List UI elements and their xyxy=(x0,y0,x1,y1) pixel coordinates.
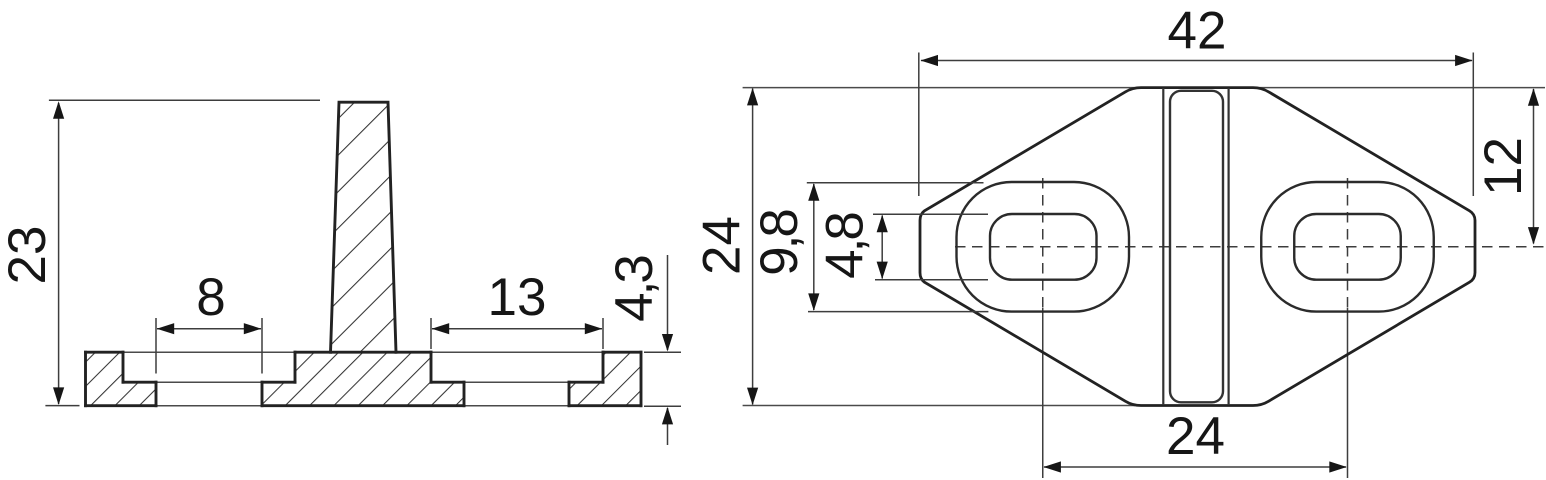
right hole counterbore outline xyxy=(1261,182,1434,312)
dimension 4,3 xyxy=(644,255,681,445)
hatched left block of base section xyxy=(86,352,157,406)
dimension 8 xyxy=(156,318,262,374)
through slot walls xyxy=(155,382,158,406)
svg-text:42: 42 xyxy=(1168,2,1227,61)
counterbore floors xyxy=(123,381,156,384)
svg-text:8: 8 xyxy=(196,268,225,327)
svg-text:4,8: 4,8 xyxy=(816,213,875,279)
svg-text:4,3: 4,3 xyxy=(605,256,664,322)
thin edge extension lines (top and bottom edges extended) xyxy=(743,88,1545,406)
svg-text:24: 24 xyxy=(693,216,752,275)
svg-text:23: 23 xyxy=(0,226,57,285)
plate outline (hex with flats) xyxy=(920,88,1475,406)
dimension 9,8 xyxy=(807,183,989,312)
top surface segments xyxy=(86,351,124,354)
right hole slot xyxy=(1294,214,1401,280)
hatched right block of base section xyxy=(569,352,641,406)
post footprint vertical lines xyxy=(1163,88,1228,405)
hatched post (tapered) xyxy=(331,102,397,352)
dimension 42 xyxy=(919,53,1474,197)
base section thick outline xyxy=(86,102,642,406)
post outline xyxy=(331,102,397,352)
counterbore walls xyxy=(122,352,125,382)
svg-text:24: 24 xyxy=(1166,407,1225,466)
svg-text:9,8: 9,8 xyxy=(750,210,809,276)
bottom surface segments xyxy=(86,404,157,407)
svg-text:13: 13 xyxy=(488,268,547,327)
dimension 23 xyxy=(45,100,320,405)
dimension 24 left xyxy=(752,89,754,405)
center lines (dashed) xyxy=(955,178,1545,478)
left hole slot xyxy=(990,214,1097,280)
dimension 4,8 xyxy=(873,214,988,280)
hatched center block of base section xyxy=(262,352,464,406)
thin background edges (seen through slots) xyxy=(123,352,603,406)
svg-text:12: 12 xyxy=(1474,137,1533,196)
outer ends xyxy=(84,352,87,406)
left hole counterbore outline xyxy=(957,182,1130,312)
dimension 12 xyxy=(1533,89,1535,244)
dimension 24 bottom xyxy=(1044,466,1346,468)
post top outline (stadium) xyxy=(1170,91,1223,403)
dimension 13 xyxy=(431,318,603,349)
